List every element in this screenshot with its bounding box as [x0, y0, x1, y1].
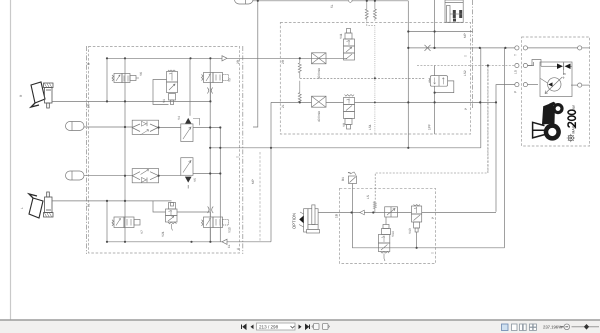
- svg-text:Y21: Y21: [161, 231, 165, 237]
- svg-text:2R: 2R: [236, 59, 240, 64]
- LS dashed path: [375, 66, 488, 202]
- svg-text:P: P: [464, 108, 468, 110]
- zoom slider: [572, 326, 600, 328]
- wire top line y=3: [253, 0, 408, 2]
- wire P supply line (y=147.8): [210, 147, 481, 149]
- MAX 200 bar label: [568, 104, 576, 133]
- spring pair under top line: [365, 1, 376, 26]
- wire box L to Y5: [159, 175, 181, 177]
- wire MP line y=31.5: [408, 31, 472, 33]
- valve Y1 (vertical): [167, 70, 178, 105]
- wire bottom bus (y=242.8): [107, 241, 271, 243]
- valve Y7: [112, 217, 140, 228]
- wire accumulator R line: [84, 126, 132, 128]
- wire vertical x=504.5: [504, 48, 506, 248]
- svg-text:LS: LS: [514, 70, 518, 74]
- wire bus x=209.5: [209, 58, 211, 242]
- wire L pedal line 1L: [52, 200, 172, 202]
- gear icon: [567, 134, 575, 142]
- svg-text:Y9: Y9: [228, 78, 232, 82]
- filter 40l/min upper: [312, 53, 327, 64]
- svg-text:bar: bar: [572, 104, 576, 110]
- svg-text:OPTION: OPTION: [292, 213, 297, 229]
- wire left vertical x=107: [106, 58, 108, 101]
- master cylinder L: [44, 192, 54, 217]
- wire T to tractor connectors: [515, 46, 590, 50]
- restrictor/check box R: [132, 120, 159, 135]
- wire bus x=257.8: [253, 1, 258, 127]
- pedal R: [31, 82, 45, 107]
- wire R pedal line 1R: [52, 100, 211, 102]
- svg-text:B1: B1: [341, 177, 345, 181]
- svg-text:P: P: [514, 91, 518, 93]
- dashed pilot line y=78.3: [300, 77, 425, 79]
- wire Y13 stem to T: [416, 232, 418, 248]
- svg-text:Y6: Y6: [139, 72, 143, 76]
- dotted LS pilot down: [374, 26, 376, 135]
- svg-text:2R: 2R: [281, 59, 285, 64]
- svg-text:T: T: [236, 156, 240, 158]
- check diamond on top line: [348, 0, 352, 3]
- wire top bus 2R (y=58.3): [107, 57, 313, 59]
- wire T line y=47.9: [408, 47, 515, 49]
- oval accumulator top: [235, 0, 254, 4]
- section line right dash-dot lower (x=488): [487, 66, 489, 173]
- wire vertical x=480.8: [480, 48, 482, 148]
- wire LS connectors: [515, 62, 534, 68]
- svg-text:40 l/min: 40 l/min: [317, 68, 321, 79]
- wire P connectors: [515, 83, 590, 88]
- svg-text:1B: 1B: [335, 214, 339, 218]
- svg-text:T: T: [431, 252, 435, 254]
- section line A (dash-dot): [242, 46, 244, 254]
- check arrow on 2R bus: [222, 56, 227, 61]
- section line B (dash-dot): [86, 46, 88, 254]
- svg-text:Y4: Y4: [177, 116, 181, 120]
- throttle above Y10: [208, 207, 214, 214]
- OPTION joystick: [292, 205, 320, 233]
- svg-text:P: P: [431, 217, 435, 219]
- arrow on bottom bus: [222, 239, 227, 244]
- wire vertical x=434.5 top: [434, 0, 436, 48]
- wire LS2 dashed y=66.2: [417, 65, 515, 67]
- wire accumulator L line: [84, 175, 132, 177]
- svg-text:T: T: [514, 54, 518, 56]
- section line right dash-dot (x=472.5): [472, 0, 474, 108]
- valve Y8 (vertical): [344, 95, 355, 130]
- svg-text:Y1: Y1: [162, 99, 166, 103]
- LS spring option: [374, 202, 377, 212]
- left manifold dashed box: [89, 47, 240, 254]
- svg-text:Y5: Y5: [193, 178, 197, 182]
- page input box: [257, 323, 296, 330]
- wire compensator out: [496, 85, 515, 212]
- accumulator L: [66, 171, 85, 180]
- restrictor/check box L: [132, 169, 158, 183]
- wire box R to Y4: [159, 127, 181, 129]
- pump box: [528, 60, 573, 97]
- tractor dashed box: [522, 37, 590, 146]
- svg-text:Y8: Y8: [342, 123, 346, 127]
- wire 2L line: [271, 101, 312, 103]
- history icons: [312, 324, 330, 330]
- svg-text:T: T: [464, 55, 468, 57]
- tractor frame outline: [533, 122, 545, 138]
- toolbar background: [0, 320, 600, 333]
- valve Y10: [202, 217, 229, 228]
- valve Y5: [181, 158, 193, 189]
- cooler box top right: [445, 0, 463, 22]
- section line MP dash (x=260): [259, 152, 261, 241]
- valve Y9: [202, 73, 229, 83]
- throttle X on T line: [425, 45, 431, 51]
- zoom minus: [561, 326, 564, 328]
- svg-text:1PF: 1PF: [428, 124, 432, 130]
- svg-text:2L: 2L: [281, 104, 285, 108]
- wire Y21 right to X: [177, 211, 210, 213]
- wire Y1 left loop: [153, 80, 169, 105]
- svg-text:Y7: Y7: [140, 230, 144, 234]
- wire Y10 stems: [209, 212, 211, 217]
- spring pair vertical x=299.8: [298, 58, 301, 102]
- flow control box option: [385, 207, 398, 217]
- svg-text:1R: 1R: [87, 103, 91, 108]
- svg-text:Y13: Y13: [408, 228, 412, 234]
- svg-text:LS2: LS2: [463, 70, 467, 76]
- valve Y6: [112, 74, 139, 83]
- option dashed box: [340, 188, 436, 263]
- filter 40l/min lower: [312, 96, 327, 107]
- nav first page: [242, 325, 254, 330]
- B1 sensor: [348, 172, 357, 213]
- layout icons: [502, 324, 537, 331]
- svg-text:L: L: [20, 207, 24, 209]
- valve Y14 (vertical): [378, 217, 390, 261]
- svg-text:1L: 1L: [87, 203, 91, 207]
- wire option main line: [318, 212, 411, 214]
- wire Y21 left loop: [153, 201, 166, 212]
- svg-text:213 / 298: 213 / 298: [259, 325, 279, 330]
- svg-text:LS1: LS1: [368, 124, 372, 130]
- wire bus x=220.3: [219, 128, 221, 242]
- svg-text:40 l/min: 40 l/min: [317, 111, 321, 122]
- valve Y4: [181, 58, 200, 141]
- wire 2R bus center (y=58.3): [313, 57, 347, 59]
- svg-text:Y10: Y10: [228, 227, 232, 233]
- svg-text:5L: 5L: [330, 4, 334, 8]
- wire Y5 out: [193, 173, 220, 175]
- check arrow option: [360, 210, 365, 215]
- svg-text:MP: MP: [463, 33, 467, 38]
- tractor icon: [542, 102, 564, 141]
- svg-text:MAX.: MAX.: [572, 125, 576, 133]
- valve Y21 (vertical): [166, 203, 178, 231]
- pedal L: [29, 194, 43, 218]
- svg-text:LS: LS: [366, 195, 370, 199]
- throttle under Y9: [207, 88, 213, 94]
- wire bus x=408.3: [407, 1, 409, 148]
- wire Y9 stem: [209, 83, 211, 102]
- valve Y13 (vertical): [412, 205, 422, 233]
- wire option T line: [353, 213, 505, 248]
- svg-text:W: W: [563, 72, 566, 76]
- svg-text:Y14: Y14: [391, 231, 395, 237]
- svg-text:1L: 1L: [227, 244, 231, 248]
- page left edge: [10, 0, 12, 320]
- wire 2L turndown: [270, 102, 272, 241]
- compensator: [429, 66, 454, 135]
- svg-text:237.196%: 237.196%: [543, 325, 562, 330]
- svg-text:Y11: Y11: [339, 33, 343, 39]
- nav next: [299, 325, 310, 330]
- center manifold dashed box: [280, 23, 470, 135]
- valve Y11 (vertical): [344, 29, 355, 61]
- wire Y4 out: [193, 127, 220, 129]
- accumulator R: [66, 122, 85, 131]
- svg-text:B: B: [87, 63, 91, 65]
- wire left vertical x=125: [124, 58, 126, 242]
- tiny labels: [19, 4, 566, 254]
- master cylinder R: [44, 83, 54, 108]
- svg-text:MP: MP: [251, 179, 255, 184]
